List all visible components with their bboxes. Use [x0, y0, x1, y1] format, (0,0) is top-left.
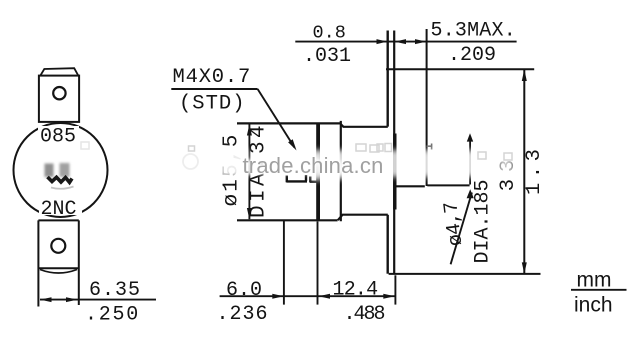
arrow tip 0.8 right [395, 39, 407, 44]
label 2NC background [39, 199, 82, 215]
terminal T1 hole [53, 87, 65, 99]
thermostat body circle (front view) [14, 123, 108, 217]
arrow tip 0.8 left [377, 39, 388, 44]
dimension line bottom (6.0 and 12.4) [220, 295, 396, 297]
M4 label underline [171, 88, 257, 90]
arrow tip 6.0 [272, 294, 284, 299]
M4 leader arrowhead [288, 139, 296, 150]
faint arc under squiggle [51, 187, 74, 189]
extension lines bottom [283, 221, 285, 305]
dia 4.7 divider line [451, 193, 472, 265]
arrow tip 6.35 left [40, 297, 52, 302]
faint watermark squares [81, 142, 512, 160]
terminal T2 bottom tab [38, 220, 78, 306]
svg-text:6.35: 6.35 [89, 279, 141, 302]
svg-text:.031: .031 [303, 45, 351, 68]
svg-text:.250: .250 [85, 304, 140, 327]
terminal T1 top tab lid [40, 68, 79, 76]
cap rear face thick edge [316, 123, 320, 220]
cap top edge (side view) [237, 122, 341, 124]
watermark glow patches [220, 149, 514, 180]
svg-text:ø4,7: ø4,7 [440, 201, 468, 247]
svg-text:12.4: 12.4 [333, 279, 378, 302]
arrow tip 12.4 left [319, 294, 331, 299]
body bottom edge [338, 215, 388, 221]
dimension line dia 15.5 [248, 125, 250, 220]
cap bottom edge (side view) [237, 219, 338, 221]
svg-text:(STD): (STD) [179, 93, 246, 116]
center squiggle [48, 177, 73, 182]
terminal plate right edge [393, 31, 395, 274]
extension line bottom (33mm) [389, 273, 541, 275]
watermark logo ring [183, 154, 198, 169]
svg-text:mm: mm [577, 269, 612, 292]
svg-text:085: 085 [40, 126, 76, 149]
extension line 5.3max [426, 29, 428, 186]
arrow tip dia15.5 bottom [247, 208, 252, 219]
body step edge [340, 121, 342, 221]
arrow tip 33 bottom [522, 262, 527, 274]
svg-text:0.8: 0.8 [313, 23, 346, 44]
boss bottom edge [394, 185, 424, 187]
terminal plate left edge [387, 31, 389, 127]
body top edge [341, 124, 388, 127]
dia 4.7 arrow bottom [467, 189, 474, 198]
svg-text:.236: .236 [217, 303, 269, 326]
terminal T2 hole [51, 239, 65, 253]
arrow tip dia15.5 top [247, 124, 252, 135]
svg-text:6.0: 6.0 [226, 279, 262, 302]
terminal T1 top tab body [39, 76, 79, 122]
arrow tip 5.3 [415, 39, 427, 44]
watermark logo blobs [45, 163, 70, 177]
svg-text:DIA.185: DIA.185 [472, 179, 495, 263]
watermark trade.china.cn [243, 153, 384, 179]
dia 4.7 leader line [469, 141, 471, 185]
svg-text:inch: inch [574, 294, 613, 317]
extension line top (33mm) [386, 68, 534, 70]
svg-text:1.3: 1.3 [523, 145, 546, 195]
M4 leader line [258, 89, 295, 148]
arrow tip 33 top [522, 69, 527, 81]
svg-text:.209: .209 [448, 44, 496, 67]
svg-text:M4X0.7: M4X0.7 [173, 66, 252, 89]
svg-text:5.3MAX.: 5.3MAX. [431, 20, 516, 43]
arrow tip 6.35 right [66, 297, 78, 302]
svg-text:.488: .488 [344, 303, 385, 326]
stud M4 bottom outline [286, 175, 316, 182]
dimension line 33/1.3 [523, 69, 525, 274]
dia 4.7 arrow top [467, 133, 473, 141]
dimension line 6.35 (left view) [40, 299, 156, 301]
dimension line top (0.8 and 5.3) [295, 41, 516, 43]
svg-text:2NC: 2NC [41, 198, 77, 221]
arrow tip 12.4 right [383, 294, 395, 299]
label 085 background [38, 126, 79, 143]
faint step mark [427, 144, 432, 150]
mm/inch separator [571, 289, 627, 291]
